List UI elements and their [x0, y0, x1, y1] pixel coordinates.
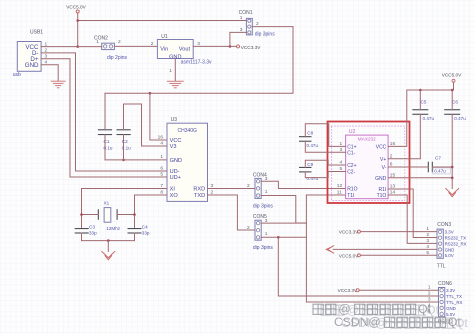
svg-text:C2-: C2- [347, 170, 355, 176]
capacitor C6 [445, 99, 467, 121]
wire VCC rail down to U3 VCC pin16 [150, 93, 167, 140]
junction crystal right [133, 213, 136, 216]
svg-text:C2+: C2+ [347, 163, 356, 169]
svg-text:1: 1 [426, 226, 429, 232]
wire C9 top to U2 C2+ pin4 [305, 160, 345, 167]
svg-text:CON6: CON6 [438, 281, 452, 287]
capacitor C8 [300, 131, 319, 148]
svg-text:GND: GND [375, 176, 387, 182]
wire C5 bottom to U2 V+ pin2 [388, 114, 420, 158]
svg-text:Vout: Vout [179, 47, 191, 53]
svg-text:XO: XO [170, 193, 179, 199]
svg-text:2: 2 [247, 225, 250, 231]
wire CON2 pin2 to U1 Vin [114, 45, 157, 47]
highlight red box around U2 [328, 122, 410, 204]
svg-text:@: @ [338, 302, 350, 316]
wire USB1 pin1 VCC [41, 46, 78, 48]
crystal X1 12Mhz [98, 200, 120, 231]
svg-text:12: 12 [337, 183, 343, 189]
wire C5 top stem [419, 90, 421, 110]
capacitor C3 [75, 224, 97, 235]
svg-text:C3: C3 [89, 224, 95, 229]
svg-text:U3: U3 [171, 117, 178, 123]
junction at USB VCC node [76, 45, 79, 48]
pin numbers CON2 [96, 39, 121, 45]
wire C1 bottom to GND rail [104, 135, 106, 160]
svg-text:VCC: VCC [376, 145, 387, 151]
wire VCC5 top-right rail [388, 90, 453, 146]
svg-text:5: 5 [160, 172, 163, 178]
wire USB1 pin3 D+ to UD+ [41, 59, 167, 177]
svg-text:33p: 33p [142, 231, 150, 236]
wire C2 top to U3 V3 pin4 [124, 104, 168, 146]
power VCC5.0V top right [442, 73, 462, 91]
svg-text:0.47u: 0.47u [454, 116, 466, 121]
wire VCC3.3V to CON6 pin1 [359, 289, 438, 291]
wire U2 V- pin6 to C7 [388, 166, 428, 168]
pin numbers U1 [151, 41, 200, 74]
connector USB1 [13, 30, 44, 79]
ground arrow left RS232 GND [326, 246, 333, 253]
svg-text:2: 2 [151, 41, 154, 47]
pin numbers CON5 [247, 218, 268, 237]
wire U2 T1O pin14 to CON3 pin3 [388, 195, 437, 243]
wire USB VCC node to CON2 pin1 [78, 46, 102, 48]
svg-text:VCC5.0V: VCC5.0V [66, 5, 86, 10]
svg-text:C1-: C1- [347, 150, 355, 156]
junction GND on C6 stem [451, 177, 454, 180]
svg-text:4: 4 [426, 244, 429, 250]
pin numbers U3 [158, 135, 214, 196]
svg-text:1: 1 [265, 189, 268, 195]
wire U2 R1I pin13 to CON3 pin2 [388, 189, 437, 238]
svg-text:T1I: T1I [347, 193, 354, 199]
svg-text:Qt: Qt [418, 302, 431, 316]
pin numbers U2 [337, 141, 396, 196]
svg-text:RXD: RXD [193, 187, 205, 193]
svg-text:V+: V+ [380, 157, 386, 163]
net labels CON3 [445, 230, 467, 259]
wire crystal left stub [82, 214, 99, 216]
wire CON5 pin3 to vertical B [261, 222, 306, 224]
svg-text:UD+: UD+ [170, 175, 181, 181]
svg-text:dip 2pins: dip 2pins [107, 55, 128, 61]
IC U2 MAX232 [346, 129, 389, 199]
pin numbers CON3 [426, 226, 429, 256]
svg-text:1: 1 [265, 231, 268, 237]
wire C9 bottom to U2 C2- pin5 [305, 172, 345, 178]
junction at VCC5 rail [76, 19, 79, 22]
junction C5 top [419, 89, 422, 92]
svg-text:11: 11 [337, 189, 342, 195]
power VCC5.0V for CON3 pin5 [339, 253, 361, 258]
wire C6 bottom down to ground [451, 114, 453, 188]
svg-text:C9: C9 [307, 162, 313, 167]
svg-text:XI: XI [170, 187, 176, 193]
svg-text:V3: V3 [170, 144, 177, 150]
junction C7 on C6 stem [451, 166, 454, 169]
svg-text:0.47u: 0.47u [423, 116, 435, 121]
svg-text:C4: C4 [142, 224, 148, 229]
capacitor C5 [413, 99, 435, 121]
svg-text:16: 16 [158, 135, 164, 141]
capacitor C4 [128, 224, 150, 235]
connector CON4 [253, 172, 274, 209]
net labels CON6 [446, 288, 462, 317]
svg-text:C7: C7 [435, 155, 441, 160]
svg-text:VCC5.0V: VCC5.0V [442, 73, 462, 78]
connector CON6 RS232 [438, 281, 454, 325]
svg-text:X1: X1 [104, 200, 110, 205]
svg-text:2: 2 [428, 291, 431, 297]
regulator U1 asm1117-3.3v [157, 34, 212, 66]
svg-text:RS232_RX: RS232_RX [445, 241, 467, 246]
power VCC3.3V for CON3 pin1 [339, 230, 361, 235]
svg-text:CSDN: CSDN [334, 315, 369, 329]
svg-text:U2: U2 [349, 129, 356, 135]
watermark line1 [313, 302, 432, 316]
junction CON5 pin1 [277, 236, 280, 239]
wire C1 top to VCC rail [104, 93, 106, 130]
junction VCC rail to U3 [149, 92, 152, 95]
svg-text:CH340G: CH340G [177, 128, 197, 134]
svg-text:1: 1 [96, 39, 99, 45]
svg-text:C1: C1 [104, 139, 110, 144]
capacitor C2 [117, 130, 131, 151]
junction U1 Vout / CON1 pin3 [229, 45, 232, 48]
wire U3 GND pin1 [105, 159, 167, 161]
junction crystal left [80, 213, 83, 216]
wire U1 Vout to VCC3.3V [193, 45, 236, 47]
wire GND arrow to CON3 pin4 [333, 248, 437, 250]
svg-text:Vin: Vin [160, 47, 168, 53]
svg-text:GND: GND [25, 62, 39, 69]
wire U3 XI pin7 to crystal left [82, 189, 168, 229]
svg-text:0.47u: 0.47u [307, 176, 319, 181]
wire C3 bottom to gnd rail [82, 233, 135, 241]
wire USB1 pin4 GND [41, 65, 58, 81]
wire C7 right to C6 stem [432, 166, 452, 168]
pin numbers CON6 [428, 285, 431, 315]
svg-text:usb: usb [13, 72, 21, 78]
watermark line2 ghost [341, 316, 468, 330]
svg-text:1: 1 [160, 154, 163, 160]
svg-text:R1O: R1O [347, 187, 357, 193]
junction C6 top [451, 89, 454, 92]
svg-text:C2: C2 [122, 139, 128, 144]
wire U3 RXD pin3 to CON4 pin2 [208, 188, 256, 190]
svg-text:V-: V- [382, 165, 387, 171]
connector CON5 [253, 214, 274, 251]
wire CON4 pin3 jog to U2 R1O [261, 181, 345, 188]
wire U2 T1I from vertical B [306, 194, 345, 196]
power VCC5.0V top-left [66, 5, 86, 21]
svg-text:12Mhz: 12Mhz [106, 226, 120, 231]
capacitor C1 [98, 130, 112, 151]
svg-text:TTL_TX: TTL_TX [446, 294, 462, 299]
svg-text:5.0V: 5.0V [445, 253, 454, 258]
junction crystal gnd [107, 239, 110, 242]
capacitor C9 [300, 162, 319, 181]
svg-text:1: 1 [240, 15, 243, 21]
wire C8 top to U2 C1+ pin1 [305, 124, 345, 147]
wire VCC5.0V to CON3 pin5 [360, 254, 437, 256]
IC U3 CH340G [167, 117, 208, 202]
connector CON1 [239, 10, 276, 37]
svg-text:5: 5 [426, 250, 429, 256]
svg-text:2: 2 [247, 183, 250, 189]
junction C2 bottom on GND wire [122, 159, 125, 162]
ground arrow below C6 [446, 189, 459, 197]
ground below U1 [167, 81, 183, 88]
svg-text:4: 4 [160, 141, 163, 147]
svg-text:1: 1 [169, 68, 172, 74]
svg-text:@: @ [368, 315, 380, 329]
dashed selection rect inside red box [332, 126, 405, 201]
svg-text:Qt: Qt [448, 315, 461, 329]
pin numbers CON4 [247, 176, 268, 195]
wire U3 TXD pin2 to CON5 pin2 [208, 195, 256, 230]
svg-text:RS232_TX: RS232_TX [445, 236, 467, 241]
capacitor C7 [428, 155, 450, 174]
wire CON1 pin3 to VCC3.3V node [230, 32, 247, 46]
wire U2 GND pin15 to ground [388, 177, 452, 179]
svg-text:GND: GND [170, 158, 182, 164]
svg-text:3: 3 [426, 238, 429, 244]
svg-text:dip 3pins: dip 3pins [253, 245, 274, 251]
wire CON1 pin2 to VCC rail down-left [105, 27, 293, 94]
wire TTL_TX vertical to CON6 pin2 [278, 237, 438, 296]
svg-text:USB1: USB1 [30, 30, 43, 36]
svg-text:1: 1 [428, 285, 431, 291]
svg-text:0.47u: 0.47u [307, 143, 319, 148]
wire VCC5.0V rail to CON1 pin1 [78, 20, 247, 22]
wire U1 GND pin1 [174, 59, 176, 81]
svg-text:TTL: TTL [437, 264, 446, 270]
svg-text:VCC5.0V: VCC5.0V [339, 253, 359, 258]
svg-text:2: 2 [118, 39, 121, 45]
wire stem to crystal ground [107, 241, 109, 252]
watermark line2 [334, 315, 461, 329]
svg-text:TXD: TXD [194, 193, 205, 199]
svg-text:0.47u: 0.47u [434, 169, 446, 174]
svg-text:asm1117-3.3v: asm1117-3.3v [181, 60, 212, 66]
ground arrow below crystal [102, 252, 115, 260]
wire C6 top stem [451, 90, 453, 110]
wire C8 bottom to U2 C1- pin3 [305, 141, 345, 152]
svg-text:C5: C5 [421, 99, 427, 104]
wire C2 bottom [123, 135, 125, 160]
svg-text:33p: 33p [89, 231, 97, 236]
wire USB1 pin2 D- to UD- [41, 53, 167, 171]
svg-text:VCC3.3V: VCC3.3V [339, 230, 359, 235]
wire VCC5.0V stem down to USB VCC node [77, 21, 79, 47]
svg-text:T1O: T1O [377, 193, 387, 199]
svg-text:dip 3pins: dip 3pins [255, 32, 276, 38]
wire U3 XO pin8 to crystal right [135, 195, 168, 228]
wire VCC3.3V to CON3 pin1 [360, 231, 437, 233]
wire T1I vertical B to CON6 pin3 [306, 195, 438, 302]
svg-text:R1I: R1I [379, 187, 387, 193]
wire crystal right stub [117, 214, 134, 216]
svg-text:C6: C6 [452, 99, 458, 104]
watermark line1 ghost [321, 303, 440, 317]
svg-text:CON3: CON3 [437, 222, 451, 228]
svg-text:2: 2 [426, 232, 429, 238]
pin number USB1 1-4 [45, 41, 48, 65]
power VCC3.3V for CON6 pin1 [338, 288, 360, 293]
connector CON2 [94, 36, 128, 62]
svg-text:TTL_RX: TTL_RX [446, 300, 462, 305]
svg-text:6: 6 [160, 166, 163, 172]
svg-text:VCC3.3V: VCC3.3V [241, 45, 261, 50]
svg-text:VCC3.3V: VCC3.3V [338, 288, 358, 293]
pin numbers CON1 [240, 15, 259, 33]
svg-text:MAX232: MAX232 [358, 137, 376, 142]
wire CON5 pin1 [261, 236, 306, 238]
svg-text:GND: GND [445, 247, 455, 252]
ground below USB1 [51, 81, 65, 88]
svg-text:C8: C8 [307, 131, 313, 136]
svg-text:3.3V: 3.3V [446, 288, 455, 293]
wire CON4 pin1 down to TTL net [261, 196, 306, 224]
svg-text:GND: GND [446, 306, 456, 311]
power VCC3.3V right of U1 [237, 45, 262, 50]
svg-text:3.3V: 3.3V [445, 230, 454, 235]
svg-text:dip 3pins: dip 3pins [253, 203, 274, 209]
connector CON3 TTL [437, 222, 452, 270]
